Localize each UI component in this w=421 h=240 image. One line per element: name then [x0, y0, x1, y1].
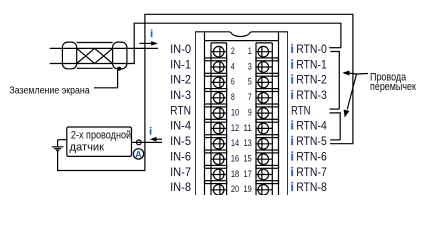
svg-text:19: 19 — [244, 184, 252, 194]
screw terminal pin 5 (right col) — [256, 77, 272, 88]
loop wire from i RTN-5 around module to sensor ground — [58, 14, 353, 170]
terminal block inner ledge line left — [204, 32, 206, 195]
svg-text:IN-2: IN-2 — [170, 73, 191, 87]
svg-text:RTN-1: RTN-1 — [296, 57, 327, 71]
svg-text:5: 5 — [248, 77, 252, 87]
2-wire sensor box — [67, 127, 132, 156]
screw terminal pin 16 (left col) — [211, 154, 227, 165]
svg-text:датчик: датчик — [70, 141, 105, 153]
callout connector — [357, 73, 369, 76]
wire sensor minus to ground — [58, 139, 67, 141]
terminal strip inner top edge — [205, 40, 279, 42]
terminal block inner ledge line right — [278, 32, 280, 195]
svg-text:IN-6: IN-6 — [170, 149, 191, 163]
clamp bar between pins row 5/6 — [205, 119, 227, 122]
screw terminal pin 9 (right col) — [256, 108, 272, 119]
screw terminal pin 12 (left col) — [211, 123, 227, 134]
svg-text:RTN-7: RTN-7 — [296, 165, 327, 179]
clamp bar between pins row 9/10 — [205, 181, 227, 184]
svg-text:RTN-5: RTN-5 — [296, 134, 327, 148]
cable return wire (-) routed to i RTN-0 — [50, 23, 341, 63]
cable shield body — [77, 43, 113, 69]
svg-text:3: 3 — [248, 61, 252, 71]
svg-text:RTN: RTN — [291, 103, 311, 117]
clamp bar between pins row 8/9 — [205, 165, 227, 168]
terminal block outer wall right — [287, 32, 289, 195]
attach mark i RTN-5 upper — [330, 139, 340, 141]
current arrow into IN-0 — [139, 42, 152, 44]
svg-text:i: i — [291, 167, 294, 179]
svg-text:i: i — [291, 182, 294, 194]
svg-text:перемычек: перемычек — [370, 81, 416, 93]
svg-text:RTN-3: RTN-3 — [296, 88, 327, 102]
arrow to jumper wire 1 — [349, 72, 357, 75]
wire sensor output to IN-5 — [132, 141, 163, 143]
attach mark RTN upper — [330, 108, 340, 110]
svg-text:IN-1: IN-1 — [170, 57, 191, 71]
screw terminal pin 2 (left col) — [211, 46, 227, 57]
svg-text:8: 8 — [231, 92, 235, 102]
svg-text:12: 12 — [231, 123, 239, 133]
current arrow into sensor — [156, 138, 163, 140]
svg-text:6: 6 — [231, 77, 235, 87]
screw terminal pin 18 (left col) — [211, 169, 227, 180]
screw terminal pin 13 (right col) — [256, 139, 272, 150]
svg-text:10: 10 — [231, 107, 239, 117]
screw terminal pin 11 (right col) — [256, 123, 272, 134]
svg-text:18: 18 — [231, 169, 239, 179]
screw terminal pin 3 (right col) — [256, 62, 272, 73]
screw terminal pin 10 (left col) — [211, 108, 227, 119]
sensor current indicator A — [133, 149, 143, 159]
screw terminal pin 15 (right col) — [256, 154, 272, 165]
svg-text:RTN-2: RTN-2 — [296, 73, 327, 87]
svg-text:IN-5: IN-5 — [170, 134, 191, 148]
svg-text:IN-0: IN-0 — [170, 42, 191, 56]
screw terminal pin 19 (right col) — [256, 185, 272, 196]
svg-text:4: 4 — [231, 61, 235, 71]
svg-text:20: 20 — [231, 184, 239, 194]
svg-text:IN-4: IN-4 — [170, 119, 191, 133]
svg-text:i: i — [291, 75, 294, 87]
svg-text:i: i — [149, 127, 152, 138]
screw terminal pin 6 (left col) — [211, 77, 227, 88]
svg-text:RTN: RTN — [170, 103, 191, 117]
svg-text:i: i — [150, 29, 153, 40]
svg-text:i: i — [291, 44, 294, 56]
clamp bar between pins row 2/3 — [205, 73, 227, 76]
attach mark i RTN-0 upper — [329, 47, 341, 49]
svg-text:7: 7 — [248, 92, 252, 102]
svg-text:15: 15 — [244, 153, 252, 163]
screw terminal pin 7 (right col) — [256, 93, 272, 104]
svg-text:16: 16 — [231, 153, 239, 163]
svg-text:2: 2 — [231, 46, 235, 56]
svg-text:11: 11 — [244, 123, 252, 133]
svg-text:Заземление экрана: Заземление экрана — [9, 85, 90, 96]
svg-text:14: 14 — [231, 138, 239, 148]
screw terminal pin 1 (right col) — [256, 46, 272, 57]
svg-text:17: 17 — [244, 169, 252, 179]
svg-text:2-х проводной: 2-х проводной — [71, 129, 131, 141]
svg-text:i: i — [291, 59, 294, 71]
shield ferrule right — [113, 42, 127, 69]
svg-text:RTN-0: RTN-0 — [296, 42, 327, 56]
svg-text:i: i — [291, 90, 294, 102]
svg-text:RTN-6: RTN-6 — [296, 149, 327, 163]
svg-text:IN-8: IN-8 — [170, 180, 191, 194]
svg-text:IN-3: IN-3 — [170, 88, 191, 102]
sensor output terminal circle — [136, 140, 141, 145]
terminal block top edge with notch — [195, 32, 288, 37]
shield ferrule left — [62, 42, 76, 69]
shield ground pointer line — [94, 70, 118, 88]
clamp bar between pins row 4/5 — [205, 104, 227, 107]
cable signal wire (+) to IN-0 — [50, 47, 158, 49]
svg-text:RTN-8: RTN-8 — [296, 180, 327, 194]
svg-text:А: А — [135, 149, 142, 159]
attach mark RTN lower + jumper wire 2 — [330, 113, 341, 140]
ground (earth) symbol — [52, 140, 64, 151]
svg-text:i: i — [291, 121, 294, 133]
clamp bar between pins row 3/4 — [205, 89, 227, 92]
svg-text:RTN-4: RTN-4 — [296, 119, 327, 133]
screw terminal pin 14 (left col) — [211, 139, 227, 150]
screw terminal pin 4 (left col) — [211, 62, 227, 73]
svg-text:i: i — [291, 151, 294, 163]
screw terminal pin 20 (left col) — [211, 185, 227, 196]
screw terminal pin 8 (left col) — [211, 93, 227, 104]
clamp bar between pins row 6/7 — [205, 135, 227, 138]
svg-text:9: 9 — [248, 107, 252, 117]
twisted pair crossover — [77, 48, 113, 63]
screw terminal pin 17 (right col) — [256, 169, 272, 180]
clamp bar between pins row 7/8 — [205, 150, 227, 153]
terminal strip columns — [211, 43, 272, 195]
shield ground junction dot — [117, 67, 121, 71]
svg-text:13: 13 — [244, 138, 252, 148]
svg-text:1: 1 — [248, 46, 252, 56]
arrow to jumper wire 2 — [347, 74, 356, 110]
svg-text:i: i — [291, 136, 294, 148]
terminal block outer wall left — [195, 32, 197, 195]
clamp bar between pins row 1/2 — [205, 58, 227, 61]
attach mark i RTN-0 lower + jumper wire 1 — [330, 52, 339, 110]
svg-text:IN-7: IN-7 — [170, 165, 191, 179]
